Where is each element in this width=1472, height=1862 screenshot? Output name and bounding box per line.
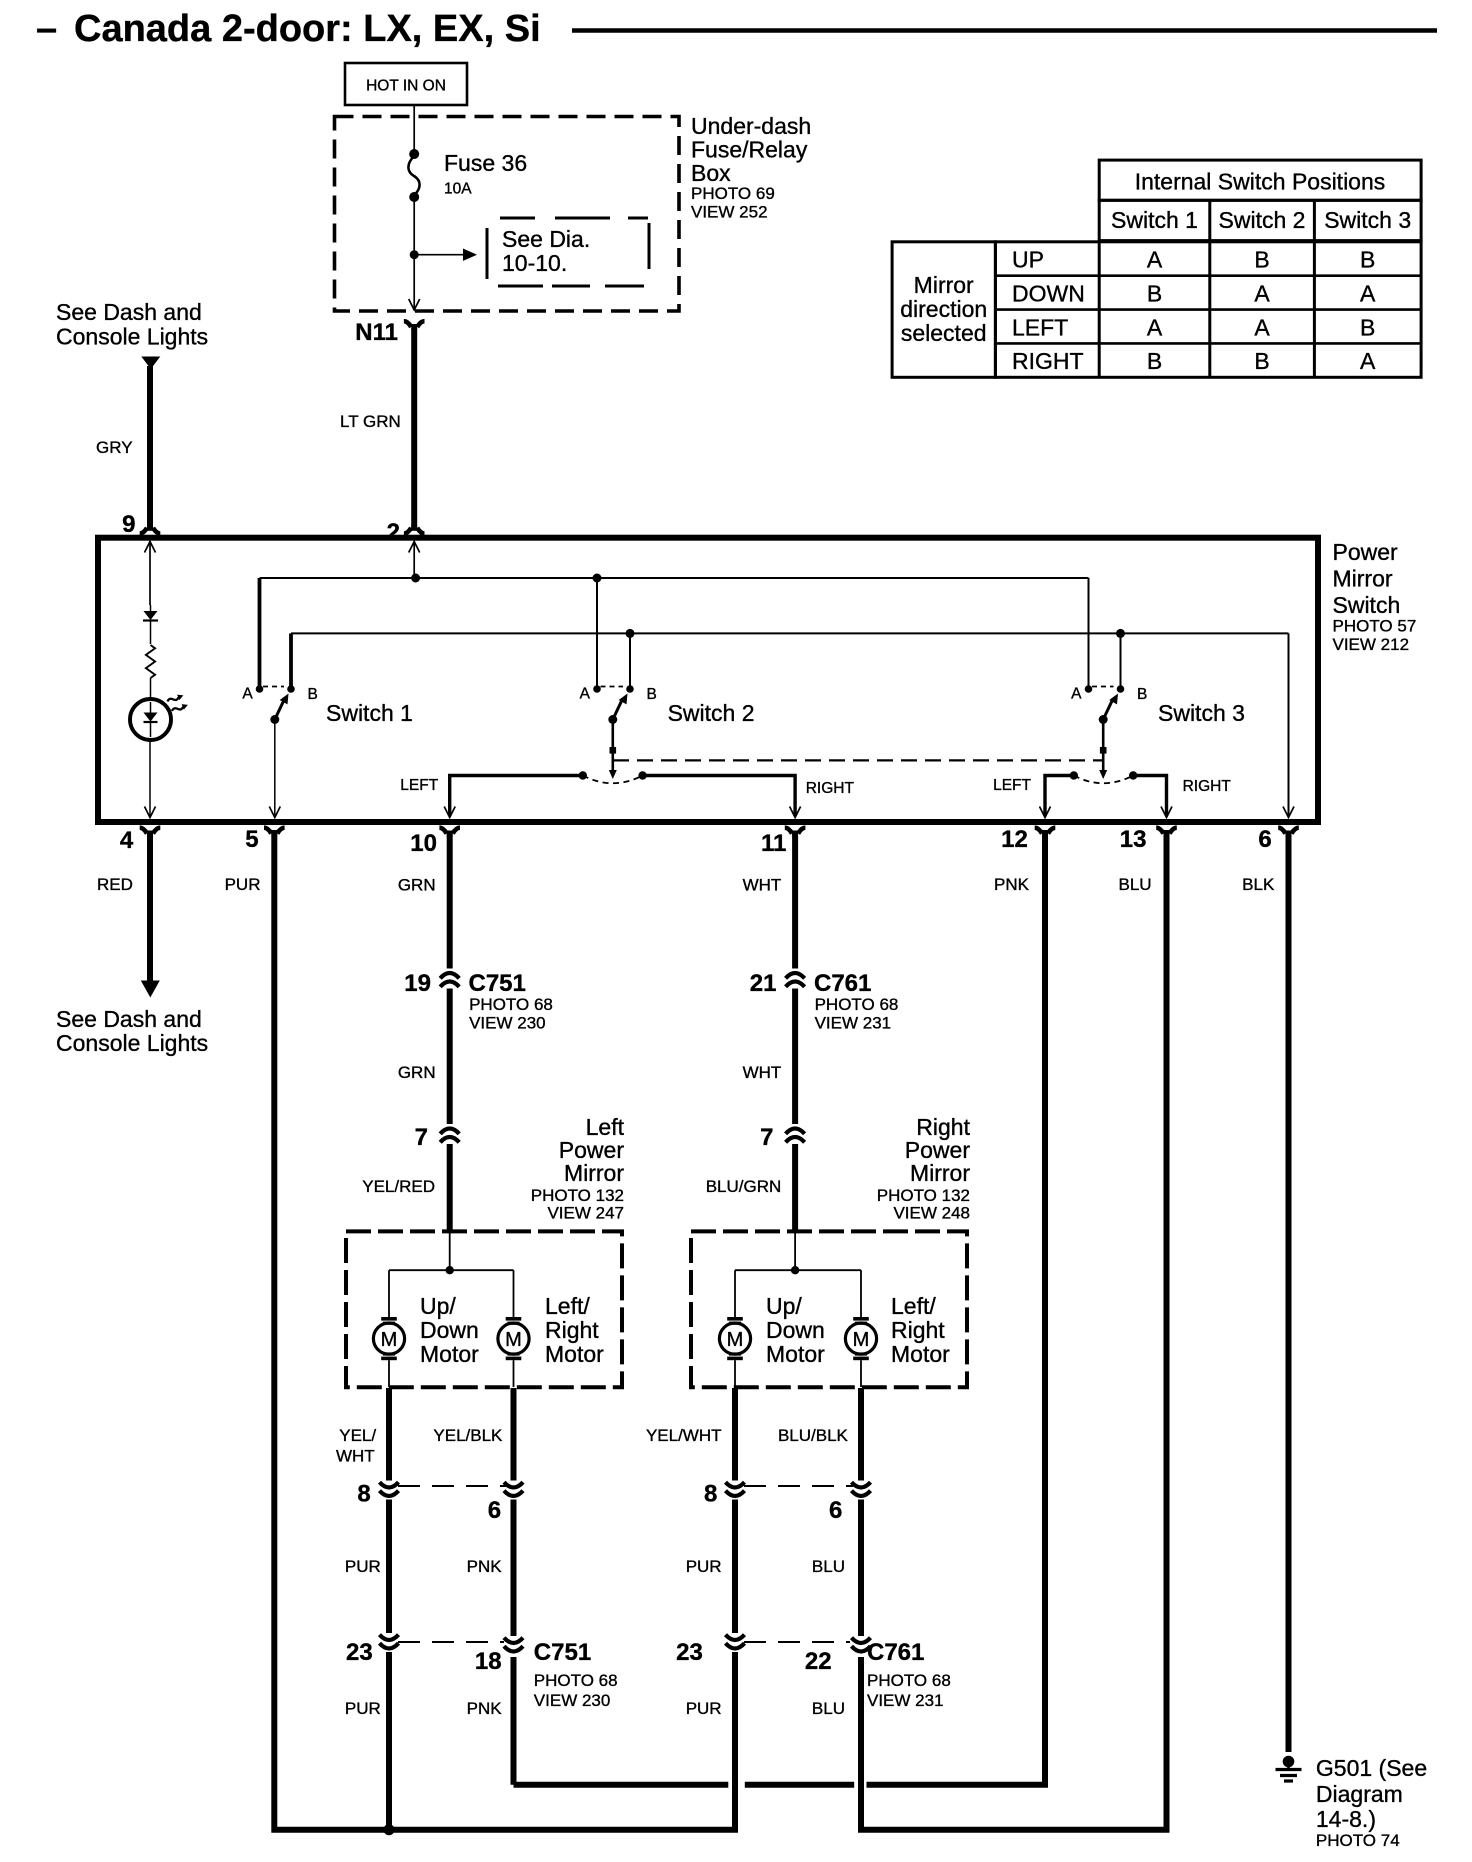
connector pin 8 (right mirror) — [704, 1481, 744, 1508]
connector pin 7 (right mirror) — [760, 1124, 804, 1151]
label PUR (left UD upper) — [345, 1557, 381, 1576]
wire: fuse to junction — [413, 197, 415, 255]
wire PUR left UD — [386, 1500, 392, 1634]
svg-text:A: A — [1254, 314, 1270, 340]
svg-text:M: M — [505, 1329, 522, 1351]
svg-text:A: A — [1147, 314, 1163, 340]
label RED — [97, 875, 133, 894]
label G501 — [1316, 1755, 1427, 1850]
wire YEL/WHT right UD motor down — [732, 1388, 738, 1481]
svg-text:Diagram: Diagram — [1316, 1781, 1403, 1807]
label BLK (pin 6) — [1242, 875, 1275, 894]
connector C751 pin 19 — [404, 970, 459, 997]
svg-text:GRN: GRN — [398, 876, 436, 895]
svg-text:LEFT: LEFT — [993, 777, 1031, 794]
svg-text:M: M — [727, 1329, 744, 1351]
svg-text:A: A — [580, 686, 591, 703]
label LEFT (switch 3) — [993, 777, 1031, 794]
svg-text:Power: Power — [1333, 539, 1399, 565]
svg-text:Switch 3: Switch 3 — [1324, 207, 1411, 233]
connector link 8-6 right (dashed) — [744, 1485, 853, 1487]
left mirror junction — [446, 1266, 454, 1274]
svg-text:VIEW 252: VIEW 252 — [691, 203, 768, 222]
off-page arrow (to dash lights) — [141, 357, 160, 370]
right mirror junction — [791, 1266, 799, 1274]
connector C751 pin 18 — [475, 1638, 523, 1675]
label YEL/WHT (two lines) — [336, 1426, 376, 1466]
mechanical linkage switch2-switch3 (dashed) — [613, 759, 1103, 761]
arrow to See Dia. 10-10 — [414, 249, 477, 261]
svg-text:21: 21 — [750, 970, 777, 997]
svg-text:23: 23 — [676, 1639, 703, 1666]
svg-text:Right: Right — [545, 1317, 599, 1343]
svg-text:Switch 2: Switch 2 — [668, 700, 755, 726]
label BLU/GRN — [706, 1177, 782, 1196]
svg-text:LEFT: LEFT — [400, 777, 438, 794]
svg-text:VIEW 212: VIEW 212 — [1333, 635, 1410, 654]
svg-text:Left/: Left/ — [545, 1293, 590, 1319]
svg-text:Switch 1: Switch 1 — [326, 700, 413, 726]
switch 3 contact A — [1071, 685, 1092, 702]
switch 3 contact B — [1117, 685, 1148, 703]
svg-text:RIGHT: RIGHT — [806, 780, 855, 797]
label See Dash and Console Lights (top) — [56, 299, 208, 350]
switch 3 dashed throw — [1092, 686, 1114, 688]
wire GRN C751 to pin7 — [447, 989, 453, 1125]
svg-text:BLU/GRN: BLU/GRN — [706, 1177, 782, 1196]
svg-text:See Dia.: See Dia. — [502, 226, 590, 252]
svg-text:10-10.: 10-10. — [502, 250, 567, 276]
svg-text:PHOTO 68: PHOTO 68 — [815, 995, 899, 1014]
svg-text:PUR: PUR — [345, 1557, 381, 1576]
svg-text:19: 19 — [404, 970, 431, 997]
label See Dia. 10-10 — [502, 226, 590, 276]
svg-text:Console Lights: Console Lights — [56, 1030, 208, 1056]
svg-text:B: B — [1360, 247, 1375, 273]
under-dash fuse/relay box label — [691, 113, 811, 222]
pin 12 connector — [1001, 826, 1055, 853]
svg-text:13: 13 — [1120, 826, 1147, 853]
svg-text:8: 8 — [704, 1481, 717, 1508]
switch 2 RIGHT output wire to pin 11 — [643, 776, 801, 818]
svg-text:A: A — [1360, 348, 1376, 374]
wire PNK left LR — [511, 1500, 517, 1637]
wire BLU right LR down — [858, 1657, 864, 1830]
label YEL/RED — [362, 1177, 435, 1196]
svg-text:C761: C761 — [867, 1639, 924, 1666]
wire RED from pin 4 — [147, 833, 153, 981]
svg-text:23: 23 — [346, 1639, 373, 1666]
right UD motor feed — [734, 1270, 736, 1317]
svg-text:GRY: GRY — [96, 438, 133, 457]
svg-text:B: B — [1147, 280, 1162, 306]
svg-text:Down: Down — [766, 1317, 825, 1343]
wire PNK left LR to PNK cross wire — [511, 1657, 517, 1785]
left left/right motor label — [545, 1293, 604, 1367]
label LT GRN — [340, 412, 401, 431]
label WHT (lower) — [743, 1063, 782, 1082]
svg-text:YEL/RED: YEL/RED — [362, 1177, 435, 1196]
label PNK (pin 12) — [994, 875, 1030, 894]
label Fuse 36 10A — [444, 150, 527, 198]
wire: HOT IN ON to fuse 36 — [413, 105, 415, 153]
under-dash fuse/relay box (dashed) — [335, 117, 680, 312]
svg-text:PHOTO 68: PHOTO 68 — [867, 1671, 951, 1690]
label C751 (bottom) PHOTO 68 VIEW 230 — [534, 1639, 618, 1710]
svg-text:18: 18 — [475, 1648, 502, 1675]
pin 9 entry arrow — [145, 541, 156, 605]
switch 2 wiper arc (dashed) — [579, 771, 647, 783]
svg-text:Motor: Motor — [766, 1341, 825, 1367]
right mirror internal feed — [794, 1233, 796, 1270]
svg-text:YEL/BLK: YEL/BLK — [433, 1426, 503, 1445]
wire YEL/RED pin7 to left mirror — [447, 1144, 453, 1233]
wire BLK pin6 to G501 — [1286, 833, 1292, 1752]
label WHT (upper) — [743, 876, 782, 895]
svg-text:HOT IN ON: HOT IN ON — [366, 78, 446, 95]
internal switch positions table — [892, 160, 1421, 377]
svg-text:Switch: Switch — [1333, 592, 1401, 618]
svg-text:B: B — [1254, 348, 1269, 374]
switch 1 pivot — [270, 715, 279, 724]
label YEL/BLK — [433, 1426, 503, 1445]
svg-text:Internal Switch Positions: Internal Switch Positions — [1135, 169, 1386, 195]
svg-text:Mirror: Mirror — [914, 272, 974, 298]
switch 3 RIGHT output wire to pin 13 — [1133, 776, 1172, 818]
left UD motor feed — [388, 1270, 390, 1317]
label BLU/BLK — [778, 1426, 849, 1445]
wire BLU/GRN pin7 to right mirror — [792, 1144, 798, 1233]
svg-text:C751: C751 — [534, 1639, 591, 1666]
title: Canada 2-door LX EX Si — [36, 8, 1437, 50]
pin 6 connector — [1258, 826, 1298, 853]
switch 3 LEFT output wire to pin 12 — [1040, 776, 1074, 818]
See Dia. 10-10 box (dashed) — [487, 218, 649, 286]
svg-text:10A: 10A — [444, 181, 472, 198]
svg-text:B: B — [308, 686, 318, 703]
svg-text:VIEW 230: VIEW 230 — [469, 1014, 546, 1033]
junction dot in fuse box — [410, 250, 419, 259]
left mirror internal feed — [449, 1233, 451, 1270]
svg-text:Console Lights: Console Lights — [56, 324, 208, 350]
wire WHT pin11 to C761 — [792, 833, 798, 969]
svg-text:PNK: PNK — [467, 1557, 503, 1576]
svg-text:Fuse 36: Fuse 36 — [444, 150, 527, 176]
wire PUR from pin 5 down to bottom bus — [274, 833, 735, 1830]
wire PNK pin12 down and left to left mirror LR motor — [514, 833, 1046, 1785]
wire LT GRN: N11 to switch pin 2 — [411, 328, 417, 529]
connector pin 6 (right mirror) — [829, 1482, 870, 1524]
svg-text:A: A — [1071, 686, 1082, 703]
connector C761 pin 22 — [805, 1638, 871, 1675]
svg-text:BLK: BLK — [1242, 875, 1275, 894]
svg-text:PHOTO 132: PHOTO 132 — [877, 1186, 970, 1205]
wire GRY to switch pin 9 — [147, 366, 153, 529]
pin 10 connector — [410, 828, 460, 857]
svg-text:VIEW 231: VIEW 231 — [867, 1691, 944, 1710]
svg-text:9: 9 — [122, 511, 135, 538]
right mirror internal bus — [735, 1269, 861, 1271]
label BLU (right LR upper) — [812, 1557, 845, 1576]
svg-text:Fuse/Relay: Fuse/Relay — [691, 137, 808, 163]
svg-text:4: 4 — [120, 827, 134, 854]
svg-text:YEL/: YEL/ — [339, 1426, 376, 1445]
svg-text:22: 22 — [805, 1648, 832, 1675]
pin 13 connector — [1120, 826, 1177, 853]
svg-text:C751: C751 — [469, 970, 526, 997]
svg-text:–: – — [36, 8, 57, 50]
switch 1 dashed throw — [263, 686, 284, 688]
connector link 23-22 (dashed) — [744, 1641, 850, 1643]
pin 9 connector — [122, 511, 160, 538]
switch 2 pivot — [608, 715, 617, 724]
svg-text:RIGHT: RIGHT — [1183, 778, 1232, 795]
svg-text:B: B — [647, 686, 657, 703]
wire PUR right UD — [732, 1500, 738, 1634]
svg-text:8: 8 — [357, 1481, 370, 1508]
svg-text:A: A — [1147, 247, 1163, 273]
svg-text:See Dash and: See Dash and — [56, 1006, 202, 1032]
svg-text:12: 12 — [1001, 826, 1028, 853]
svg-text:PHOTO 69: PHOTO 69 — [691, 184, 775, 203]
switch 2 contact B feed — [629, 633, 631, 686]
svg-text:BLU: BLU — [812, 1699, 845, 1718]
switch 2 dashed throw — [601, 686, 624, 688]
junction: switch3 B on bus 2 — [1116, 629, 1125, 638]
connector link 8-6 (dashed) — [398, 1485, 506, 1487]
fuse F36 (Fuse 36 10A) — [408, 149, 419, 202]
svg-text:Up/: Up/ — [766, 1293, 802, 1319]
switch 2 lever — [613, 694, 628, 720]
svg-text:VIEW 247: VIEW 247 — [547, 1204, 624, 1223]
svg-text:B: B — [1360, 314, 1375, 340]
left power mirror label — [531, 1114, 625, 1223]
svg-text:PUR: PUR — [686, 1699, 722, 1718]
svg-text:LT GRN: LT GRN — [340, 412, 401, 431]
svg-text:Box: Box — [691, 160, 731, 186]
svg-text:B: B — [1137, 686, 1147, 703]
label PUR (right UD lower) — [686, 1699, 722, 1718]
bus line 2 (ground bus, y=633.4) — [291, 632, 1289, 634]
svg-text:G501 (See: G501 (See — [1316, 1755, 1427, 1781]
pin 4 connector — [120, 827, 160, 854]
label PUR (pin 5) — [225, 875, 261, 894]
wire PUR left UD to bottom bus — [386, 1652, 392, 1830]
LED light arrows — [166, 693, 189, 714]
switch 2 contact B — [626, 685, 657, 703]
wire GRN pin10 to C751 — [447, 833, 453, 969]
svg-text:GRN: GRN — [398, 1063, 436, 1082]
right LR motor feed — [860, 1270, 862, 1317]
svg-text:RIGHT: RIGHT — [1012, 348, 1084, 374]
switch 1 contact A feed — [258, 578, 262, 686]
pin 11 connector — [761, 828, 805, 857]
svg-text:PHOTO 57: PHOTO 57 — [1333, 617, 1417, 636]
power mirror switch box — [98, 538, 1318, 822]
connector pin 6 (left mirror) — [488, 1482, 523, 1524]
svg-text:10: 10 — [410, 830, 437, 857]
svg-text:Down: Down — [420, 1317, 479, 1343]
pin 5 connector — [245, 826, 284, 853]
svg-text:VIEW 230: VIEW 230 — [534, 1691, 611, 1710]
svg-text:PHOTO 132: PHOTO 132 — [531, 1186, 624, 1205]
wire YEL/WHT left UD motor down — [386, 1388, 392, 1481]
svg-text:5: 5 — [245, 826, 258, 853]
connector link 23-18 (dashed) — [398, 1641, 504, 1643]
switch 1 contact A — [242, 685, 263, 702]
switch 1 label — [326, 700, 413, 726]
left left/right motor M — [498, 1317, 529, 1387]
switch 3 contact A feed — [1088, 578, 1090, 686]
left up/down motor label — [420, 1293, 479, 1367]
connector pin 7 (left mirror) — [415, 1124, 460, 1151]
svg-text:VIEW 248: VIEW 248 — [893, 1204, 970, 1223]
right power mirror label — [877, 1114, 971, 1223]
wire diode to resistor — [150, 621, 152, 644]
label N11 — [355, 319, 398, 346]
wire BLU/BLK right LR motor down — [858, 1388, 864, 1481]
svg-text:PHOTO 68: PHOTO 68 — [469, 995, 553, 1014]
wire BLU pin13 down to bottom bus 2 — [861, 833, 1167, 1830]
label PUR (left UD lower) — [345, 1699, 381, 1718]
label GRN (lower) — [398, 1063, 436, 1082]
svg-text:direction: direction — [900, 296, 987, 322]
label PUR (right UD upper) — [686, 1557, 722, 1576]
wire LED to pin 4 — [145, 740, 156, 818]
left mirror internal bus — [389, 1269, 514, 1271]
svg-text:RED: RED — [97, 875, 133, 894]
label RIGHT (switch 2) — [806, 780, 855, 797]
svg-text:VIEW 231: VIEW 231 — [815, 1014, 892, 1033]
switch 2 contact A feed — [596, 578, 598, 686]
right up/down motor label — [766, 1293, 825, 1367]
switch 3 lever — [1103, 694, 1118, 720]
switch 1 contact B — [287, 685, 318, 703]
junction on bottom bus — [384, 1824, 395, 1835]
svg-text:PUR: PUR — [686, 1557, 722, 1576]
label BLU (pin 13) — [1119, 875, 1152, 894]
svg-text:PNK: PNK — [467, 1699, 503, 1718]
svg-text:C761: C761 — [814, 970, 871, 997]
HOT IN ON box — [345, 63, 467, 105]
svg-text:6: 6 — [488, 1497, 501, 1524]
switch 2 label — [668, 700, 755, 726]
svg-text:BLU: BLU — [812, 1557, 845, 1576]
svg-text:PHOTO 74: PHOTO 74 — [1316, 1831, 1400, 1850]
svg-text:Up/: Up/ — [420, 1293, 456, 1319]
svg-text:6: 6 — [1258, 826, 1271, 853]
wire WHT C761 to pin7 — [792, 989, 798, 1125]
svg-text:2: 2 — [387, 519, 400, 546]
svg-text:PUR: PUR — [345, 1699, 381, 1718]
svg-text:6: 6 — [829, 1497, 842, 1524]
label LEFT (switch 2) — [400, 777, 438, 794]
label RIGHT (switch 3) — [1183, 778, 1232, 795]
label YEL/WHT (right) — [646, 1426, 722, 1445]
switch 2 pole — [609, 723, 617, 779]
svg-text:selected: selected — [901, 320, 987, 346]
right left/right motor label — [891, 1293, 950, 1367]
left power mirror box (dashed) — [346, 1231, 622, 1387]
label C761 PHOTO 68 VIEW 231 — [814, 970, 898, 1033]
switch 3 pivot — [1099, 715, 1108, 724]
svg-text:Motor: Motor — [420, 1341, 479, 1367]
pin 2 connector — [387, 519, 425, 546]
bus line 1 (pin 2 feed, y=578) — [260, 577, 1089, 579]
svg-text:LEFT: LEFT — [1012, 314, 1068, 340]
svg-text:A: A — [242, 686, 253, 703]
svg-text:B: B — [1147, 348, 1162, 374]
label BLU (right LR lower) — [812, 1699, 845, 1718]
wire PUR right UD to bottom bus — [732, 1652, 738, 1830]
svg-text:See Dash and: See Dash and — [56, 299, 202, 325]
svg-text:A: A — [1254, 280, 1270, 306]
right power mirror box (dashed) — [691, 1231, 967, 1387]
junction: switch2 B on bus 2 — [626, 629, 635, 638]
wire: junction to fuse box edge + exit arrow — [409, 255, 420, 310]
svg-text:B: B — [1254, 247, 1269, 273]
off-page arrow to dash lights (bottom) — [141, 981, 160, 998]
svg-text:N11: N11 — [355, 319, 398, 346]
label C761 (bottom) PHOTO 68 VIEW 231 — [867, 1639, 951, 1710]
svg-text:WHT: WHT — [336, 1447, 375, 1466]
svg-text:A: A — [1360, 280, 1376, 306]
svg-text:M: M — [381, 1329, 398, 1351]
svg-text:PUR: PUR — [225, 875, 261, 894]
switch 1 contact B feed — [289, 633, 293, 686]
svg-text:Mirror: Mirror — [1333, 566, 1393, 592]
wire BLU right LR — [858, 1500, 864, 1637]
label PNK (left LR upper) — [467, 1557, 503, 1576]
svg-text:14-8.): 14-8.) — [1316, 1806, 1376, 1832]
svg-text:Mirror: Mirror — [564, 1160, 624, 1186]
junction: pin2 wire on bus 1 — [411, 574, 420, 583]
svg-text:Switch 1: Switch 1 — [1111, 207, 1198, 233]
svg-text:Left/: Left/ — [891, 1293, 936, 1319]
wire YEL/BLK left LR motor down — [511, 1388, 517, 1481]
svg-text:Mirror: Mirror — [910, 1160, 970, 1186]
svg-text:WHT: WHT — [743, 876, 782, 895]
svg-text:PNK: PNK — [994, 875, 1030, 894]
svg-text:11: 11 — [761, 830, 786, 857]
connector pin 8 (left mirror) — [357, 1481, 398, 1508]
pin 2 entry arrow — [409, 541, 420, 578]
svg-text:Switch 2: Switch 2 — [1219, 207, 1306, 233]
label PNK (left LR lower) — [467, 1699, 503, 1718]
connector C751 pin 23 — [346, 1635, 399, 1666]
right up/down motor M — [719, 1317, 750, 1387]
svg-text:Right: Right — [891, 1317, 945, 1343]
LED indicator (illumination lamp) — [130, 699, 171, 740]
connector C761 pin 23 — [676, 1635, 744, 1666]
switch 3 wiper arc (dashed) — [1070, 771, 1138, 783]
switch 1 pole wire to pin 5 — [269, 723, 280, 818]
left up/down motor M — [373, 1317, 404, 1387]
svg-text:M: M — [853, 1329, 870, 1351]
connector C761 pin 21 — [750, 970, 805, 997]
right left/right motor M — [845, 1317, 876, 1387]
power mirror switch label — [1333, 539, 1417, 654]
ground bus drop to pin 6 — [1283, 633, 1294, 817]
switch 2 contact A — [580, 685, 601, 702]
label See Dash and Console Lights (bottom) — [56, 1006, 208, 1056]
switch 3 contact B feed — [1120, 633, 1122, 686]
svg-text:PHOTO 68: PHOTO 68 — [534, 1671, 618, 1690]
ground G501 — [1276, 1756, 1302, 1781]
connector N11 cup — [404, 321, 425, 330]
svg-text:7: 7 — [760, 1124, 773, 1151]
switch 3 label — [1158, 700, 1245, 726]
